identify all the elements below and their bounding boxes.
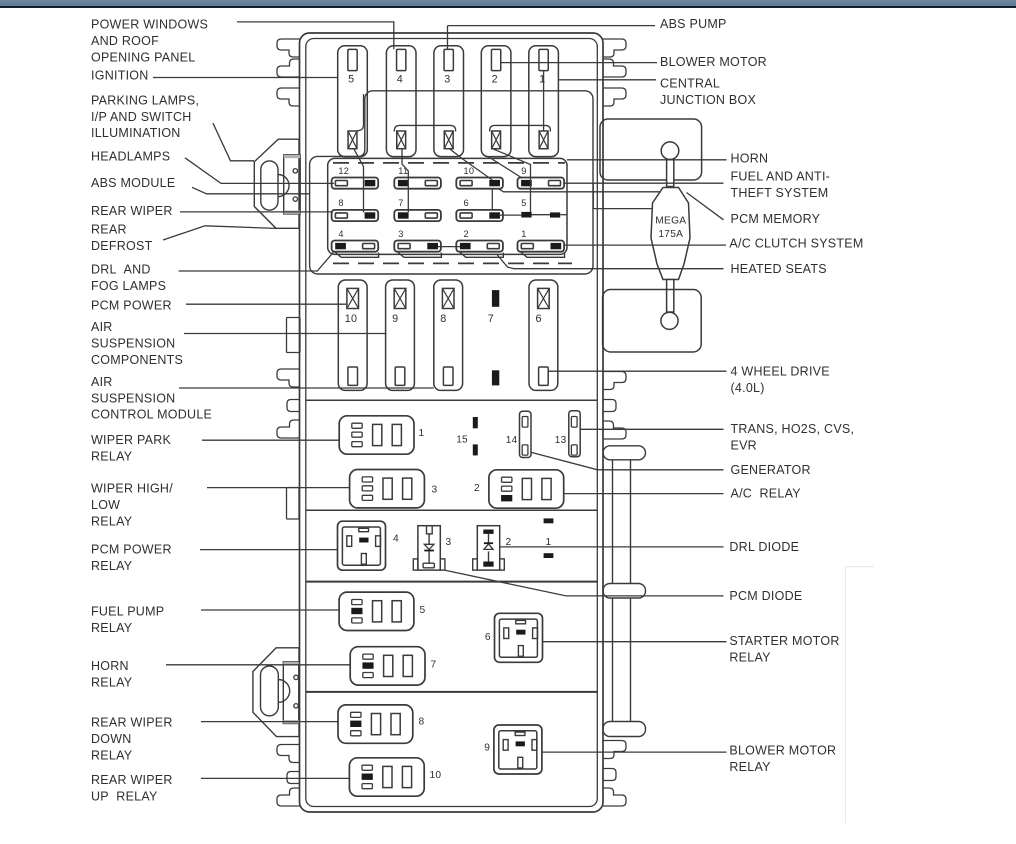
mega fuse lower terminal circle xyxy=(661,312,678,329)
label rear defrost xyxy=(91,223,153,253)
label central junction box xyxy=(660,76,756,106)
svg-text:5: 5 xyxy=(420,605,426,616)
upper edge connector arc xyxy=(278,175,289,197)
label wiper park relay xyxy=(91,433,171,463)
label ignition xyxy=(91,68,149,82)
leader power windows xyxy=(237,22,394,49)
left mounting tab rail 1 xyxy=(287,318,301,353)
label rear wiper xyxy=(91,204,173,218)
right mounting tab 6 xyxy=(603,421,626,439)
relay 13 xyxy=(555,411,580,457)
label fuel and anti-theft system xyxy=(731,169,831,199)
left mounting tab 9 xyxy=(277,788,300,806)
svg-text:2: 2 xyxy=(464,229,469,239)
leader pcm power relay xyxy=(200,549,338,551)
label 4 wheel drive 4.0l xyxy=(731,365,830,395)
lower edge connector body xyxy=(253,648,299,737)
svg-text:HORN: HORN xyxy=(91,659,129,673)
mega fuse upper holder xyxy=(600,119,702,180)
svg-text:3: 3 xyxy=(444,73,450,85)
right mounting tab 2 xyxy=(603,59,626,77)
svg-text:REAR WIPER: REAR WIPER xyxy=(91,204,173,218)
label a/c relay xyxy=(731,487,802,501)
svg-text:PCM DIODE: PCM DIODE xyxy=(729,589,802,603)
leader abs pump xyxy=(448,26,656,50)
svg-text:8: 8 xyxy=(440,313,446,325)
svg-text:1: 1 xyxy=(539,73,545,85)
svg-text:4: 4 xyxy=(397,73,403,85)
divider line mid lower section xyxy=(306,691,598,693)
svg-text:15: 15 xyxy=(456,435,468,446)
mini fuse 6 xyxy=(456,198,503,221)
svg-text:MEGA: MEGA xyxy=(655,216,686,227)
leader central junction box xyxy=(559,79,656,81)
mini fuse block lower dashed line xyxy=(333,262,572,264)
mini fuse 1 xyxy=(518,229,565,257)
leader abs module xyxy=(192,187,310,194)
mini fuse block frame xyxy=(328,158,567,254)
left mounting tab 2 xyxy=(277,59,300,77)
maxi fuse F4 cavity with terminal and element xyxy=(386,46,416,157)
leader a/c clutch system xyxy=(564,244,726,246)
wire position 5 link xyxy=(532,214,550,216)
right mounting tab 1 xyxy=(603,39,626,57)
svg-text:AIR: AIR xyxy=(91,375,113,389)
leader heated seats xyxy=(497,255,724,269)
svg-text:5: 5 xyxy=(521,198,526,208)
label pcm memory xyxy=(731,212,821,226)
left mounting tab 5 xyxy=(287,400,300,412)
svg-text:6: 6 xyxy=(536,313,542,325)
mini fuse 10 xyxy=(456,166,503,189)
link fuse4 X to fuse3 X xyxy=(394,125,455,131)
leader trans ho2s cvs evr xyxy=(580,428,723,430)
svg-text:DOWN: DOWN xyxy=(91,732,132,746)
central junction box inner shell xyxy=(306,39,598,807)
mini fuse 8 xyxy=(332,198,379,221)
relay 14 xyxy=(506,411,531,457)
right bracket vertical rods xyxy=(613,460,631,722)
svg-text:4 WHEEL DRIVE: 4 WHEEL DRIVE xyxy=(731,365,830,379)
svg-text:14: 14 xyxy=(506,435,518,446)
svg-text:POWER WINDOWS: POWER WINDOWS xyxy=(91,18,208,32)
svg-text:UP RELAY: UP RELAY xyxy=(91,789,158,803)
svg-text:LOW: LOW xyxy=(91,498,120,512)
svg-text:ILLUMINATION: ILLUMINATION xyxy=(91,126,181,140)
svg-text:RELAY: RELAY xyxy=(91,514,133,528)
leader 4 wheel drive xyxy=(549,370,727,372)
svg-text:11: 11 xyxy=(398,166,408,176)
svg-text:RELAY: RELAY xyxy=(91,449,133,463)
leader generator xyxy=(531,452,724,470)
svg-text:12: 12 xyxy=(338,166,349,176)
label blower motor relay xyxy=(729,744,836,774)
leader parking lamps xyxy=(213,123,254,161)
svg-text:CENTRAL: CENTRAL xyxy=(660,76,720,90)
svg-text:6: 6 xyxy=(485,632,491,643)
right mounting tab 4 xyxy=(603,372,626,390)
svg-text:ABS PUMP: ABS PUMP xyxy=(660,17,727,31)
svg-text:CONTROL MODULE: CONTROL MODULE xyxy=(91,408,212,422)
mini fuse 7 xyxy=(394,198,441,221)
left mounting tab 8 xyxy=(287,772,300,784)
svg-text:DRL DIODE: DRL DIODE xyxy=(729,540,799,554)
svg-text:SUSPENSION: SUSPENSION xyxy=(91,337,175,351)
relay 2 A/C relay xyxy=(474,470,564,508)
left mounting tab 3 xyxy=(277,88,300,106)
svg-text:9: 9 xyxy=(484,743,490,754)
leader wiper park relay xyxy=(202,439,339,441)
svg-text:AND ROOF: AND ROOF xyxy=(91,34,159,48)
maxi fuse position 7 terminals (empty) xyxy=(488,290,500,385)
label blower motor xyxy=(660,55,767,69)
svg-text:RELAY: RELAY xyxy=(91,621,133,635)
svg-text:SUSPENSION: SUSPENSION xyxy=(91,391,175,405)
leader pcm diode xyxy=(445,570,724,596)
maxi fuse F5 cavity with terminal and element xyxy=(338,46,368,157)
divider line below maxi row 2 xyxy=(306,399,598,401)
leader rear wiper xyxy=(180,211,333,213)
lower edge connector pin a xyxy=(294,675,298,679)
label rear wiper up relay xyxy=(91,773,173,803)
label rear wiper down relay xyxy=(91,716,173,763)
mini fuse 5 xyxy=(521,198,560,218)
mega fuse body MEGA 175A xyxy=(651,188,690,280)
leader rear defrost xyxy=(163,226,276,240)
mini fuse 4 xyxy=(332,229,379,257)
maxi fuse F6 cavity with element and terminal xyxy=(529,280,558,390)
leader drl and fog lamps xyxy=(179,252,335,272)
lower edge connector oval xyxy=(261,666,279,716)
right bracket rail pill 1 xyxy=(603,446,646,460)
svg-text:4: 4 xyxy=(338,229,343,239)
relay 5 fuel pump relay xyxy=(339,592,425,630)
position 15 terminals xyxy=(456,417,478,455)
divider line below relay row 1 xyxy=(306,509,598,511)
wire mini fuse 10 to mega fuse xyxy=(499,189,661,192)
maxi fuse F2 cavity with terminal and element xyxy=(481,46,511,157)
mega fuse upper terminal circle xyxy=(661,142,679,160)
relay 7 horn relay xyxy=(350,647,436,685)
svg-text:PCM POWER: PCM POWER xyxy=(91,299,172,313)
label horn xyxy=(731,151,769,165)
mini fuse 12 xyxy=(332,166,379,189)
label abs module xyxy=(91,176,175,190)
upper edge connector socket rect xyxy=(284,155,301,214)
fuse panel step outline xyxy=(310,91,593,274)
svg-text:HEADLAMPS: HEADLAMPS xyxy=(91,150,170,164)
svg-text:BLOWER MOTOR: BLOWER MOTOR xyxy=(729,744,836,758)
lower edge connector arc xyxy=(278,680,289,703)
leader air suspension control module xyxy=(179,387,434,389)
leader horn relay xyxy=(166,664,350,666)
svg-text:10: 10 xyxy=(430,770,442,781)
mega fuse upper stem xyxy=(667,160,674,187)
divider line below relay row 2 xyxy=(306,581,598,583)
maxi fuse F8 cavity with element and terminal xyxy=(434,280,463,390)
upper edge connector body xyxy=(254,139,299,228)
central junction box outer shell xyxy=(300,33,604,812)
right mounting tab 3 xyxy=(603,88,626,106)
svg-text:RELAY: RELAY xyxy=(91,559,133,573)
svg-text:3: 3 xyxy=(398,229,403,239)
lower edge connector socket rect xyxy=(283,662,299,724)
svg-text:PARKING LAMPS,: PARKING LAMPS, xyxy=(91,93,199,107)
leader ignition xyxy=(153,77,338,79)
right mounting tab 8 xyxy=(603,769,616,781)
svg-text:PCM POWER: PCM POWER xyxy=(91,542,172,556)
leader headlamps xyxy=(185,158,334,184)
svg-text:3: 3 xyxy=(446,537,452,548)
right bracket rail pill 3 xyxy=(603,722,646,737)
mini fuse 11 xyxy=(394,166,441,189)
label abs pump xyxy=(660,17,727,31)
mini fuse 3 xyxy=(394,229,441,257)
svg-text:PCM MEMORY: PCM MEMORY xyxy=(731,212,821,226)
label drl and fog lamps xyxy=(91,262,166,292)
label parking lamps ip and switch illumination xyxy=(91,93,199,140)
relay 6 starter motor relay xyxy=(485,613,543,662)
wire fuse5 X to mini fuse 8 xyxy=(354,149,364,213)
svg-text:OPENING PANEL: OPENING PANEL xyxy=(91,51,195,65)
svg-text:HEATED SEATS: HEATED SEATS xyxy=(731,262,827,276)
page top banner dark rule xyxy=(0,6,1016,8)
upper edge connector pin a xyxy=(293,169,297,173)
leader pcm power xyxy=(186,303,347,305)
svg-text:1: 1 xyxy=(419,428,425,439)
svg-text:REAR WIPER: REAR WIPER xyxy=(91,716,173,730)
svg-text:RELAY: RELAY xyxy=(729,650,771,664)
label heated seats xyxy=(731,262,827,276)
wire fuel line branch to mega fuse xyxy=(593,183,653,208)
svg-text:BLOWER MOTOR: BLOWER MOTOR xyxy=(660,55,767,69)
leader fuel and anti-theft xyxy=(564,182,724,184)
svg-text:STARTER MOTOR: STARTER MOTOR xyxy=(729,634,839,648)
label pcm power xyxy=(91,299,172,313)
leader starter motor relay xyxy=(543,641,727,643)
svg-text:5: 5 xyxy=(348,73,354,85)
label trans ho2s cvs evr xyxy=(731,422,855,452)
mini fuse 9 xyxy=(518,166,565,189)
svg-text:FUEL PUMP: FUEL PUMP xyxy=(91,605,164,619)
relay 4 PCM power relay xyxy=(338,521,400,570)
label drl diode xyxy=(729,540,799,554)
svg-text:7: 7 xyxy=(431,660,437,671)
svg-text:3: 3 xyxy=(432,485,438,496)
svg-text:FOG LAMPS: FOG LAMPS xyxy=(91,279,166,293)
position 1 terminals xyxy=(544,518,554,558)
label wiper high low relay xyxy=(91,482,173,529)
maxi fuse F10 cavity with element and terminal xyxy=(338,280,367,390)
svg-text:8: 8 xyxy=(338,198,343,208)
svg-text:2: 2 xyxy=(492,73,498,85)
svg-text:I/P AND SWITCH: I/P AND SWITCH xyxy=(91,110,192,124)
upper edge connector pin b xyxy=(293,197,297,201)
svg-text:A/C RELAY: A/C RELAY xyxy=(731,487,802,501)
right mounting tab 7 xyxy=(603,741,626,759)
maxi fuse F3 cavity with terminal and element xyxy=(434,46,464,157)
svg-text:10: 10 xyxy=(464,166,475,176)
wire position 5 to block edge xyxy=(560,214,567,216)
right bracket rail pill 2 xyxy=(603,584,646,599)
link fuse2 X to fuse1 X xyxy=(490,125,551,131)
leader pcm memory xyxy=(687,193,724,220)
label generator xyxy=(731,463,811,477)
label air suspension components xyxy=(91,320,183,367)
svg-text:RELAY: RELAY xyxy=(729,760,771,774)
svg-text:A/C CLUTCH SYSTEM: A/C CLUTCH SYSTEM xyxy=(729,236,863,250)
svg-text:10: 10 xyxy=(345,313,358,325)
relay 8 rear wiper down relay xyxy=(338,705,425,743)
leader a/c relay xyxy=(564,493,724,495)
svg-text:4: 4 xyxy=(393,534,399,545)
maxi fuse F9 cavity with element and terminal xyxy=(386,280,415,390)
svg-text:IGNITION: IGNITION xyxy=(91,68,149,82)
left mounting tab 6 xyxy=(277,420,300,438)
svg-text:WIPER PARK: WIPER PARK xyxy=(91,433,171,447)
svg-text:8: 8 xyxy=(419,717,425,728)
label starter motor relay xyxy=(729,634,839,664)
wire fuse2 X to mini position 5 xyxy=(493,149,531,212)
svg-text:(4.0L): (4.0L) xyxy=(731,381,765,395)
svg-text:DRL AND: DRL AND xyxy=(91,262,151,276)
svg-text:7: 7 xyxy=(398,198,403,208)
wire mini fuse 10 to mini fuse 6 xyxy=(491,189,493,210)
svg-text:9: 9 xyxy=(521,166,526,176)
leader rear wiper down relay xyxy=(201,721,338,723)
left mounting tab 4 xyxy=(277,369,300,387)
diode 3 DRL diode xyxy=(413,526,451,570)
relay 10 rear wiper up relay xyxy=(349,758,441,796)
svg-text:HORN: HORN xyxy=(731,151,769,165)
svg-text:13: 13 xyxy=(555,435,567,446)
svg-text:GENERATOR: GENERATOR xyxy=(731,463,811,477)
left mounting tab 1 xyxy=(277,39,300,57)
svg-text:RELAY: RELAY xyxy=(91,675,133,689)
left mounting tab 7 xyxy=(277,745,300,763)
mini fuse 2 xyxy=(456,229,503,257)
svg-text:1: 1 xyxy=(521,229,526,239)
wire fuse5 element to X xyxy=(358,94,364,131)
svg-text:FUEL AND ANTI-: FUEL AND ANTI- xyxy=(731,169,831,183)
svg-text:JUNCTION BOX: JUNCTION BOX xyxy=(660,93,756,107)
page top banner xyxy=(0,0,1016,6)
svg-text:WIPER HIGH/: WIPER HIGH/ xyxy=(91,482,173,496)
diode 2 PCM diode xyxy=(473,526,512,570)
leader wiper high low relay xyxy=(207,487,350,489)
svg-text:REAR: REAR xyxy=(91,223,127,237)
faint page crop line xyxy=(846,567,874,823)
svg-text:THEFT SYSTEM: THEFT SYSTEM xyxy=(731,186,829,200)
wire fuse4 X to mini fuse 7 xyxy=(402,149,408,213)
leader blower motor xyxy=(501,62,657,64)
leader drl diode xyxy=(500,546,724,548)
label horn relay xyxy=(91,659,133,689)
wire fuse1 element to X xyxy=(543,71,545,132)
wire fuse2 base to mini fuse 9 xyxy=(488,157,522,179)
maxi fuse F1 cavity with terminal and element xyxy=(529,46,559,157)
wire fuse3 X to mini fuse 10 xyxy=(450,149,493,180)
label air suspension control module xyxy=(91,375,212,422)
label power windows and roof opening panel xyxy=(91,18,208,65)
label headlamps xyxy=(91,150,170,164)
relay 3 wiper high-low relay xyxy=(350,470,438,508)
leader air suspension components xyxy=(184,333,387,335)
svg-text:TRANS, HO2S, CVS,: TRANS, HO2S, CVS, xyxy=(731,422,855,436)
left mounting tab rail 2 xyxy=(287,488,300,520)
svg-text:175A: 175A xyxy=(658,229,683,240)
svg-text:AIR: AIR xyxy=(91,320,113,334)
svg-text:DEFROST: DEFROST xyxy=(91,239,153,253)
mega fuse lower holder xyxy=(603,290,702,353)
wire mini fuse 6 to position 5 xyxy=(499,214,521,216)
mega fuse lower stem xyxy=(667,280,674,313)
label pcm diode xyxy=(729,589,802,603)
label a/c clutch system xyxy=(729,236,863,250)
leader rear wiper up relay xyxy=(201,777,349,779)
wire mini fuse 3 to mini fuse 2 xyxy=(438,246,460,248)
svg-text:6: 6 xyxy=(464,198,469,208)
right mounting tab 5 xyxy=(603,400,616,412)
lower edge connector pin b xyxy=(294,704,298,708)
leader horn xyxy=(567,159,727,161)
upper edge connector oval xyxy=(261,161,278,210)
right mounting tab 9 xyxy=(603,788,626,806)
svg-text:ABS MODULE: ABS MODULE xyxy=(91,176,175,190)
mini fuse block upper dashed line xyxy=(333,162,565,164)
relay 1 wiper park relay xyxy=(339,416,424,454)
relay 9 blower motor relay xyxy=(484,725,542,774)
svg-text:COMPONENTS: COMPONENTS xyxy=(91,353,183,367)
svg-text:REAR WIPER: REAR WIPER xyxy=(91,773,173,787)
svg-text:EVR: EVR xyxy=(731,439,757,453)
svg-text:9: 9 xyxy=(392,313,398,325)
svg-text:RELAY: RELAY xyxy=(91,749,133,763)
label fuel pump relay xyxy=(91,605,164,635)
leader fuel pump relay xyxy=(201,609,339,611)
svg-text:7: 7 xyxy=(488,313,494,325)
leader blower motor relay xyxy=(542,751,727,753)
svg-text:2: 2 xyxy=(474,483,480,494)
label pcm power relay xyxy=(91,542,172,572)
